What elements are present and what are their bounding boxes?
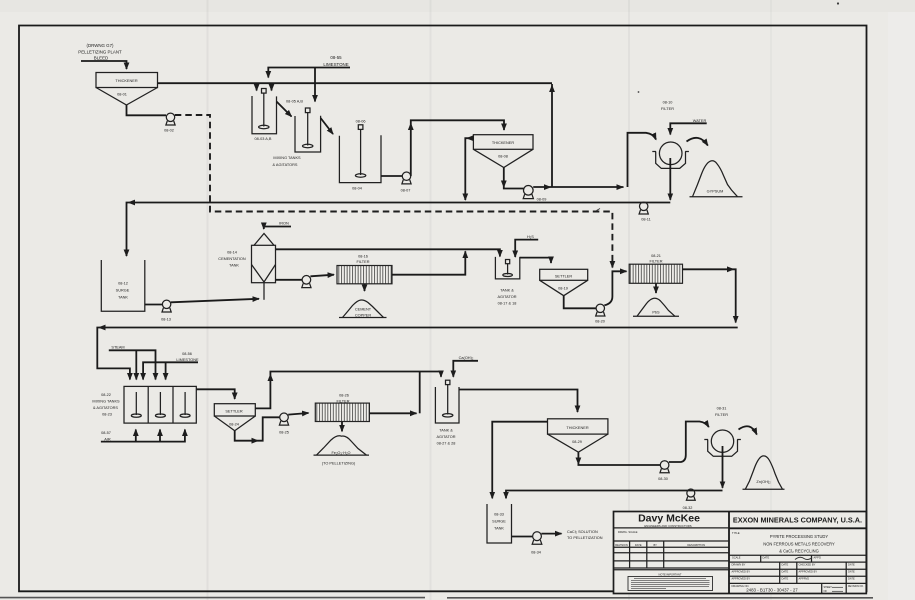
filter 08-16 [337,254,392,284]
svg-text:Zn(OH)₂: Zn(OH)₂ [756,480,771,484]
wire tank 08-22 overflow to settler 08-24 [196,389,234,399]
node 08-31 filter label [715,407,728,418]
wire pump 08-25 discharge to filter 08-26 [288,413,308,415]
svg-text:08-29: 08-29 [572,440,582,444]
node left arrowhead on overflow [466,135,474,141]
settler 08-19 [540,269,588,295]
speck [638,91,640,93]
wire tank 08-17 overflow to settler 08-19 [520,258,551,263]
svg-text:08-13: 08-13 [161,318,171,322]
tank & agitator 08-27 & 28 [435,380,459,445]
scan bottom edge [0,597,873,599]
svg-text:DATE: DATE [635,543,642,547]
wire thickener 08-01 underflow to pump 08-02 [127,105,167,115]
wire pump 08-20 discharge riser to filter 08-21 [604,271,626,305]
wire thickener 08-08 overflow to long filtrate line [465,138,473,200]
svg-text:08-34: 08-34 [531,551,542,555]
settler 08-24 [214,404,255,431]
pump 08-30 [658,461,669,481]
svg-text:DATE: DATE [848,562,855,566]
wire filter 08-26 filtrate to header riser [369,412,416,414]
svg-text:DATE: DATE [763,556,770,560]
svg-text:AGITATOR: AGITATOR [497,295,516,299]
svg-text:COPPER: COPPER [355,314,371,318]
wire cementation overflow header to tank 08-17 [276,249,500,256]
speck [597,209,601,211]
svg-text:& CaCl₂ RECYCLING: & CaCl₂ RECYCLING [779,549,819,554]
svg-text:08-26: 08-26 [339,394,349,398]
wire thickener 08-29 underflow to pump 08-30 [578,452,660,465]
node 08-55 limestone label [323,55,348,67]
fold line [207,0,209,600]
node right arrowhead on underflow [252,438,260,444]
svg-text:08-33: 08-33 [494,513,504,517]
wire iron feed into cementation tank [264,227,291,230]
mixing tanks & agitators 08-22 [92,386,196,423]
svg-text:DRAWN BY: DRAWN BY [732,562,746,566]
svg-text:08-08: 08-08 [498,155,508,159]
wire water feed into filter 08-10 [670,123,706,134]
svg-text:08-14: 08-14 [227,251,238,255]
pump 08-13 [161,300,171,321]
svg-text:08-16: 08-16 [358,254,368,258]
wire overflow tank 08-05 to tank 08-04 [321,118,333,134]
node Fe2O3 pile to pelletizing [314,436,370,466]
node up arrowhead on riser [408,123,414,131]
pump 08-20 [595,304,605,323]
node down arrowhead on underflow [501,181,507,189]
wire H2S feed into tank 08-17 [515,240,538,257]
svg-text:DATE: DATE [782,570,789,574]
surge tank 08-33 [487,504,512,543]
svg-text:08-04: 08-04 [352,187,363,191]
fold line [628,0,630,600]
wire filter 08-26 cake discharge [341,422,343,432]
node Zn(OH)2 pile [743,456,785,489]
filter 08-26 [315,394,369,422]
svg-text:2483 - B1T30 - 30437 - 27: 2483 - B1T30 - 30437 - 27 [746,587,798,592]
filter drum 08-31 [704,430,741,456]
node notes box [628,572,713,590]
svg-text:PYRITE PROCESSING STUDY: PYRITE PROCESSING STUDY [770,534,829,539]
wire limestone drop to tank 08-05 [314,68,316,102]
svg-text:08-05 A,B: 08-05 A,B [286,100,303,104]
svg-text:NOTE IMPORTANT: NOTE IMPORTANT [659,572,682,576]
wire filter 08-21 filtrate to long return line [683,269,736,322]
svg-text:APPRVD: APPRVD [799,577,810,581]
thickener 08-29 [548,419,608,452]
node 08-56 limestone label [176,352,199,362]
pump 08-25 [279,413,289,435]
node gypsum pile [690,161,743,197]
svg-text:REVISION NO.: REVISION NO. [848,586,864,588]
wire bleed feed into thickener 08-01 [81,61,127,69]
wire thickener 08-01 overflow header [158,82,553,84]
wire overflow tank 08-03 to tank 08-05 [277,102,292,117]
node drawing number row [732,583,865,593]
wire filter 08-31 drain to pump 08-32 line [722,446,724,488]
title block [614,512,867,594]
svg-text:08-23: 08-23 [102,413,112,417]
wire settler 08-19 underflow to pump 08-20 [564,296,596,309]
svg-text:08-03 A,B: 08-03 A,B [255,137,272,141]
svg-text:TANK &: TANK & [500,289,514,293]
wire filter 08-16 cake discharge [364,284,366,291]
svg-text:FILTER: FILTER [715,413,728,417]
node up arrowhead on filter 16 riser [462,251,468,259]
svg-text:SHEET: SHEET [824,586,833,589]
node label mixing tanks & agitators [273,156,302,167]
svg-text:& AGITATORS: & AGITATORS [93,406,118,410]
node 08-57 air label [101,431,111,441]
svg-text:SCALE: SCALE [732,556,741,560]
filter drum 08-10 [652,142,689,168]
node pelletizing plant bleed feed label [78,43,122,61]
svg-text:APPROVED BY: APPROVED BY [732,577,751,581]
node approval rows [729,555,867,583]
node 08-10 filter label [661,101,674,112]
wire pump 08-30 discharge to filter 08-31 [669,422,709,463]
svg-text:STEAM: STEAM [111,346,124,350]
thickener 08-01 [96,73,158,106]
svg-text:REVISION: REVISION [615,543,628,547]
wire pump 08-07 discharge riser to thickener 08-08 [411,120,504,176]
wire recycle riser to overflow header [551,84,553,187]
wire Ca(OH)2 feed into tank 08-27 [453,361,478,377]
thickener 08-08 [473,135,533,168]
wire filter 08-21 cake discharge [655,283,657,293]
svg-text:PELLETIZING PLANT: PELLETIZING PLANT [78,50,122,55]
svg-text:CaCl₂ SOLUTION: CaCl₂ SOLUTION [567,530,598,534]
svg-text:TO PELLETIZATION: TO PELLETIZATION [567,536,603,540]
fold line [430,0,432,600]
svg-text:THICKENER: THICKENER [492,141,514,145]
wire air branch 1 [135,430,137,442]
node cement copper pile [339,300,387,318]
svg-text:CEMENT: CEMENT [355,308,372,312]
node up arrowhead on recycle riser [549,85,555,93]
svg-text:08-12: 08-12 [118,282,128,286]
svg-text:TITLE: TITLE [732,531,740,535]
wire pump 08-15 discharge to filter 08-16 [310,275,334,277]
node revision table [614,541,730,570]
wire settler 08-24 overflow header to tank 08-27 [255,372,441,409]
svg-text:08-55: 08-55 [330,55,342,60]
svg-text:TANK &: TANK & [439,429,453,433]
svg-text:SURGE: SURGE [116,289,130,293]
node down arrowhead on underflow [576,458,582,466]
wire steam branch [135,350,137,379]
node drawing title [732,531,835,554]
svg-text:08-09: 08-09 [537,198,547,202]
wire limestone branch [165,362,167,379]
svg-text:EXXON MINERALS COMPANY, U.S.A.: EXXON MINERALS COMPANY, U.S.A. [733,516,862,525]
svg-text:FILTER: FILTER [337,399,350,403]
svg-text:AIR: AIR [104,437,111,441]
svg-text:MIXING TANKS: MIXING TANKS [273,156,301,160]
wire filter 08-10 cake discharge to gypsum [687,138,708,146]
wire riser to filter 08-10 [628,133,657,187]
svg-text:THICKENER: THICKENER [115,79,137,83]
svg-text:08-31: 08-31 [717,407,727,411]
svg-text:08-11: 08-11 [641,218,651,222]
svg-text:DATE: DATE [848,577,855,581]
mixing tank 08-05 A,B [295,108,321,152]
wire air header into tank bottoms [101,430,185,442]
svg-text:08-06: 08-06 [356,119,366,123]
wire tank 08-27 overflow to thickener 08-29 [459,390,578,413]
node right arrowhead at corner [727,266,735,272]
fold line [770,0,772,600]
svg-text:08-01: 08-01 [117,93,127,97]
wire cementation lower outlet to pump 08-15 [276,279,303,281]
wire thickener 08-29 overflow to surge tank 08-33 [492,422,547,499]
svg-text:08-57: 08-57 [101,431,111,435]
speck [837,2,839,4]
wire feed arrows into tank 08-03 [256,83,258,90]
svg-text:08-21: 08-21 [651,254,661,258]
svg-text:DATE: DATE [848,570,855,574]
wire pump 08-09 discharge [533,186,623,188]
wire long return line to mixing tanks 08-22 [97,328,737,380]
wire limestone header into mixing tanks [143,362,198,379]
svg-text:08-24: 08-24 [229,423,240,427]
svg-text:08-32: 08-32 [683,506,693,510]
svg-text:APPROVED BY: APPROVED BY [732,570,751,574]
svg-text:Davy McKee: Davy McKee [638,513,700,525]
wire long filtrate line to surge tank 08-12 [127,203,671,257]
node PbS pile [633,298,679,316]
svg-text:SETTLER: SETTLER [225,410,243,414]
wire pump 08-13 discharge to cementation tank 08-14 [171,299,259,303]
node CaCl2 solution label [567,530,603,540]
svg-text:DRWG. SCALE: DRWG. SCALE [618,530,638,534]
svg-text:TANK: TANK [118,296,128,300]
svg-text:08-20: 08-20 [595,320,605,324]
svg-text:Fe₂O₃·H₂O: Fe₂O₃·H₂O [331,451,350,455]
svg-text:SETTLER: SETTLER [555,275,573,279]
svg-text:08-07: 08-07 [401,189,411,193]
wire filtrate line to surge tank 08-33 [506,491,723,499]
node right arrowhead before junction [544,184,552,190]
mixing tank 08-04 [339,119,381,190]
svg-text:08-56: 08-56 [182,352,192,356]
svg-text:SURGE: SURGE [492,520,506,524]
svg-text:Ca(OH)₂: Ca(OH)₂ [459,356,474,360]
wire dashed recycle from pump 08-02 to filter 08-21 junction [175,115,613,268]
svg-text:& AGITATORS: & AGITATORS [273,163,298,167]
wire riser to overflow header [419,372,421,414]
wire surge tank 08-12 outlet to pump 08-13 [145,304,163,306]
node Exxon Minerals banner [729,516,867,529]
svg-text:08-25: 08-25 [279,431,289,435]
pump 08-07 [401,172,412,193]
svg-text:(DRWNG G7): (DRWNG G7) [87,43,115,48]
svg-text:(TO PELLETIZING): (TO PELLETIZING) [322,462,356,466]
node right arrowhead before riser [617,184,625,190]
svg-text:PbS: PbS [652,311,660,315]
svg-text:OF: OF [824,590,828,593]
wire air branch 2 [159,430,161,442]
svg-text:FILTER: FILTER [357,260,370,264]
svg-text:H₂S: H₂S [527,235,534,239]
svg-text:08-02: 08-02 [164,129,174,133]
pump 08-34 [531,532,542,555]
filter 08-21 [629,254,682,283]
wire thickener 08-08 underflow to pump 08-09 [504,168,524,189]
wire limestone header [268,68,350,78]
wire tank 08-04 outlet to pump 08-07 [381,175,402,177]
svg-text:TANK: TANK [229,264,239,268]
mixing tank 08-03 A,B [252,89,277,142]
wire pump 08-34 discharge CaCl2 solution out [541,533,561,535]
node left arrowhead at return corner [98,325,106,331]
wire settler 08-24 underflow to pump 08-25 [235,417,280,440]
svg-text:CEMENTATION: CEMENTATION [218,257,246,261]
svg-text:BLEED: BLEED [94,56,108,61]
svg-text:BY: BY [653,543,657,547]
svg-text:FILTER: FILTER [650,260,663,264]
pump 08-02 [164,113,175,132]
svg-text:DATE: DATE [782,577,789,581]
svg-text:08-17 & 18: 08-17 & 18 [498,302,517,306]
tank & agitator 08-17 & 18 [495,257,519,306]
node left arrowhead at corner [128,200,136,206]
wire filter 08-16 filtrate line [392,251,465,274]
svg-text:08-19: 08-19 [558,287,568,291]
svg-text:APP'D: APP'D [814,556,822,560]
svg-text:NON FERROUS METALS RECOVERY: NON FERROUS METALS RECOVERY [763,541,835,546]
svg-text:CHECKED BY: CHECKED BY [799,562,816,566]
wire filter 08-10 drain to filtrate line [669,158,671,200]
svg-text:FILTER: FILTER [661,107,674,111]
wire surge tank 08-33 outlet to pump 08-34 [512,536,533,538]
svg-text:DESCRIPTION: DESCRIPTION [687,543,705,547]
surge tank 08-12 [101,260,145,311]
node Davy McKee logo [638,513,700,528]
node up arrowhead on overflow riser [268,374,274,382]
svg-text:LIMESTONE: LIMESTONE [323,62,348,67]
svg-text:AGITATOR: AGITATOR [436,435,455,439]
wire filter 08-31 cake discharge to Zn(OH)2 [739,426,757,434]
svg-text:TANK: TANK [494,527,504,531]
svg-text:08-10: 08-10 [663,101,673,105]
svg-text:IRON: IRON [279,222,289,226]
svg-text:08-22: 08-22 [101,393,111,397]
svg-text:MIXING TANKS: MIXING TANKS [92,400,120,404]
svg-text:WATER: WATER [693,119,707,123]
svg-text:GYPSUM: GYPSUM [707,190,724,194]
pump 08-15 [302,276,311,288]
pump 08-09 [523,186,546,202]
pump 08-32 [683,489,696,510]
svg-text:08-30: 08-30 [658,477,668,481]
cementation tank 08-14 [218,234,275,300]
pump 08-11 [639,202,651,221]
svg-text:08-27 & 28: 08-27 & 28 [437,442,456,446]
node davy section rules [614,528,730,541]
svg-text:DATE: DATE [782,562,789,566]
svg-text:APPROVED BY: APPROVED BY [799,570,818,574]
svg-text:THICKENER: THICKENER [566,426,588,430]
wire steam header into mixing tanks [109,350,156,379]
